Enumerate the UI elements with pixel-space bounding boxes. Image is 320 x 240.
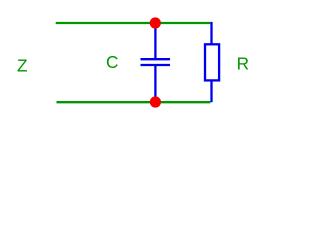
svg-text:R: R — [237, 54, 249, 74]
wire: bottom horizontal — [57, 101, 211, 103]
junction dot: top node — [150, 17, 161, 28]
svg-text:C: C — [106, 52, 118, 72]
svg-text:Z: Z — [17, 56, 28, 76]
capacitor C top plate — [141, 58, 171, 60]
wire: top horizontal — [56, 22, 211, 24]
junction dot: bottom node — [150, 96, 161, 107]
resistor R top lead wire — [210, 22, 212, 45]
resistor R bottom lead wire — [210, 80, 212, 102]
resistor R body — [205, 44, 219, 80]
capacitor C bottom plate — [141, 64, 171, 66]
capacitor C bottom lead wire — [154, 65, 156, 102]
capacitor C top lead wire — [154, 23, 156, 60]
